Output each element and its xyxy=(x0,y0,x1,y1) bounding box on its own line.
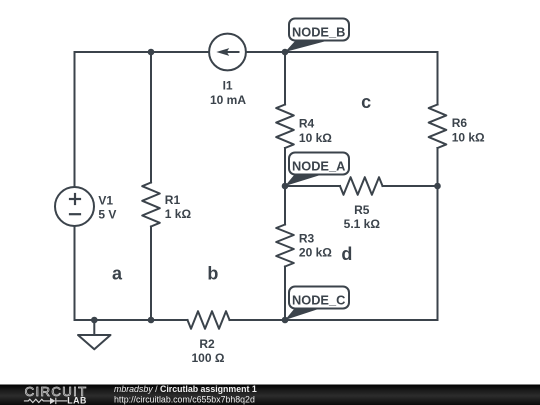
svg-text:d: d xyxy=(341,244,352,264)
svg-text:b: b xyxy=(207,263,218,283)
svg-text:V1: V1 xyxy=(98,193,113,207)
svg-text:R2: R2 xyxy=(199,337,215,351)
svg-text:LAB: LAB xyxy=(67,395,87,405)
svg-text:R4: R4 xyxy=(299,116,315,130)
svg-text:100 Ω: 100 Ω xyxy=(192,351,225,365)
svg-text:10 kΩ: 10 kΩ xyxy=(452,130,485,144)
svg-text:1 kΩ: 1 kΩ xyxy=(165,207,192,221)
svg-text:5.1 kΩ: 5.1 kΩ xyxy=(344,217,381,231)
svg-text:a: a xyxy=(112,263,123,283)
svg-text:R6: R6 xyxy=(452,116,468,130)
svg-text:http://circuitlab.com/c655bx7b: http://circuitlab.com/c655bx7bh8q2d xyxy=(114,394,255,404)
svg-text:R5: R5 xyxy=(354,203,370,217)
svg-text:NODE_B: NODE_B xyxy=(292,25,345,40)
svg-text:20 kΩ: 20 kΩ xyxy=(299,246,332,260)
svg-text:mbradsby / Circutlab assignmen: mbradsby / Circutlab assignment 1 xyxy=(114,384,257,394)
svg-text:NODE_A: NODE_A xyxy=(292,159,345,174)
svg-text:c: c xyxy=(361,92,371,112)
svg-text:5 V: 5 V xyxy=(98,208,116,222)
svg-text:NODE_C: NODE_C xyxy=(292,293,345,308)
svg-text:10 mA: 10 mA xyxy=(210,93,246,107)
svg-text:R3: R3 xyxy=(299,232,315,246)
svg-text:I1: I1 xyxy=(223,79,233,93)
svg-text:10 kΩ: 10 kΩ xyxy=(299,131,332,145)
svg-text:R1: R1 xyxy=(165,193,181,207)
